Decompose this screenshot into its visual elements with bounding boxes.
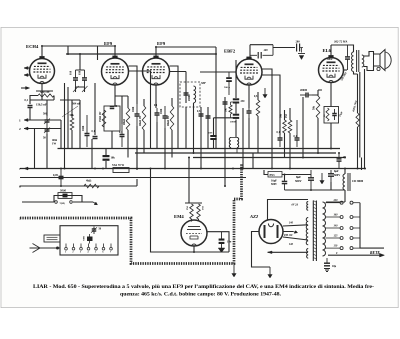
capacitor (45, 116, 50, 126)
wire long vertical right A (357, 74, 359, 169)
resistor (283, 120, 287, 133)
resistor (326, 108, 329, 121)
ground (268, 267, 272, 278)
antenna (30, 244, 61, 253)
capacitor (247, 108, 252, 118)
tube EM4 (181, 220, 207, 247)
wire speaker leads (364, 52, 374, 71)
svg-text:PM 110: PM 110 (284, 234, 293, 237)
wire v303 (302, 97, 304, 158)
volume control 5000 (22, 193, 98, 205)
tube ECH4 (30, 56, 55, 84)
capacitor (206, 116, 211, 118)
svg-text:010: 010 (70, 70, 73, 75)
wire ECH4 left leads (29, 68, 32, 75)
cap 7000 in box (87, 234, 93, 244)
wire v137 bottom (136, 149, 138, 187)
svg-text:4kΩ: 4kΩ (86, 179, 92, 183)
ground (263, 88, 267, 98)
svg-text:20000: 20000 (300, 89, 308, 92)
diode cap 500 (226, 72, 232, 95)
cap 50N (210, 135, 216, 140)
capacitor (345, 45, 350, 70)
svg-text:10µ: 10µ (332, 265, 337, 268)
wire top bus (66, 53, 216, 55)
capacitor (300, 93, 312, 98)
cap 250 (233, 98, 239, 103)
wire v61 (60, 120, 62, 149)
terminal arrows antenna input (24, 67, 30, 77)
svg-text:2M: 2M (186, 206, 189, 210)
svg-text:20k: 20k (225, 108, 228, 113)
terminal arrow left 88 (21, 87, 30, 90)
capacitor (328, 170, 334, 182)
resistor (197, 204, 201, 219)
plug (44, 235, 60, 242)
wire mains join (360, 203, 384, 248)
wire left drop (34, 129, 36, 169)
wire v95 (94, 83, 96, 135)
svg-text:5000: 5000 (60, 188, 67, 192)
wire EBF2 top cap (250, 45, 273, 57)
wire choke net (326, 169, 345, 203)
svg-text:504 nF: 504 nF (72, 102, 81, 106)
coil in MF (194, 86, 196, 103)
capacitor (92, 227, 97, 235)
svg-text:7(M): 7(M) (60, 202, 65, 205)
wire EM4 feed (188, 158, 190, 204)
output transformer (352, 50, 364, 72)
capacitor (295, 120, 300, 147)
choke CD8000 (343, 173, 350, 191)
IF2 coils (229, 138, 238, 154)
cap 400 stub (250, 45, 295, 56)
wire loop bottom to bus (111, 131, 113, 149)
wire ECH4 grid cap (41, 46, 43, 56)
wire left net (30, 96, 38, 105)
wire v253 (252, 153, 254, 169)
ground (232, 264, 236, 278)
svg-text:7000: 7000 (83, 235, 86, 241)
wire v80 down (60, 100, 80, 149)
resistor (229, 105, 232, 114)
cap 10n EM4 (218, 232, 225, 253)
label 504 nF pointer (62, 106, 78, 117)
svg-text:340: 340 (288, 243, 294, 246)
wire v280 (279, 100, 281, 135)
capacitor (282, 177, 288, 190)
EL6 cathode box (330, 83, 332, 107)
resistor (38, 94, 54, 97)
svg-text:EBF2: EBF2 (224, 49, 236, 54)
box 16uF cap (268, 172, 282, 178)
resistor (170, 106, 174, 130)
terminal 1 (24, 119, 61, 122)
svg-text:10n: 10n (227, 241, 232, 244)
ground (320, 173, 324, 184)
capacitor (82, 70, 87, 87)
svg-text:VAS 70 W: VAS 70 W (112, 164, 124, 167)
wire v178 screen (177, 104, 179, 149)
resistor (70, 118, 74, 130)
wire AZ2 left return (252, 232, 271, 268)
resistor (126, 108, 130, 130)
svg-text:2: 2 (19, 127, 21, 131)
wire v150 screen (150, 104, 152, 149)
svg-text:400: 400 (263, 49, 269, 52)
svg-text:1000: 1000 (327, 57, 333, 61)
transformer core (313, 201, 316, 262)
label RETE (370, 251, 380, 255)
wire MF to EBF2 (200, 71, 236, 73)
wire trimmer net (46, 100, 48, 169)
coil box pins (65, 244, 113, 251)
svg-text:150,5 nF: 150,5 nF (36, 103, 47, 107)
svg-text:20000: 20000 (188, 94, 191, 101)
wire bus D (193, 157, 345, 159)
capacitor (120, 124, 125, 147)
tube EF9 (143, 56, 170, 86)
speaker (374, 50, 392, 71)
capacitor (163, 106, 168, 128)
capacitor (337, 153, 342, 169)
wire EF9a bottom (114, 85, 116, 106)
capacitor (324, 258, 330, 266)
EM4 enclosure (151, 169, 230, 253)
tube EF9 (102, 56, 129, 86)
svg-text:1000: 1000 (82, 125, 85, 131)
wire resistors to tube (192, 219, 199, 222)
capacitor (135, 104, 140, 126)
wire EM4 right (207, 232, 229, 252)
svg-text:500V: 500V (334, 174, 340, 177)
svg-text:EF9: EF9 (104, 41, 113, 46)
ground (324, 269, 330, 272)
terminal 2 (24, 127, 61, 130)
resistor (316, 96, 320, 118)
wire bus G (20, 185, 137, 187)
wire EL6 anode (344, 69, 348, 71)
wire MF down (186, 72, 194, 154)
wire 54,95 down (30, 91, 54, 100)
capacitor (308, 170, 314, 190)
svg-text:500 µ: 500 µ (224, 86, 230, 89)
svg-text:MF: MF (200, 81, 207, 85)
resistor (288, 120, 292, 133)
svg-text:PN3: PN3 (270, 174, 276, 177)
capacitor (85, 115, 90, 147)
svg-text:10k: 10k (111, 157, 116, 160)
capacitor (59, 169, 64, 187)
wire EM4 bottom (193, 247, 195, 253)
capacitor (93, 137, 98, 139)
svg-text:6µF: 6µF (334, 170, 339, 173)
wire v216 (215, 54, 217, 149)
capacitor (199, 114, 204, 116)
wire EL6 cath to bus (330, 123, 332, 149)
svg-text:6: 6 (19, 185, 21, 189)
resistor (256, 100, 260, 116)
capacitor (45, 126, 50, 134)
IF transformer MF box (180, 82, 200, 107)
label 40Ω 1W (52, 139, 58, 146)
wire long vertical right C (358, 69, 365, 169)
svg-text:340: 340 (288, 222, 294, 225)
wire bus B (58, 148, 341, 150)
svg-text:50k: 50k (280, 113, 283, 118)
wire top caps net (76, 54, 85, 92)
wire v72 (71, 100, 73, 149)
label MF (200, 81, 207, 85)
wire bus F (20, 177, 246, 179)
svg-text:1W: 1W (52, 143, 56, 146)
wire v272 (271, 88, 273, 169)
capacitor (73, 70, 78, 87)
capacitor (278, 135, 283, 147)
wire output primary (331, 45, 358, 74)
svg-text:1000: 1000 (132, 106, 135, 112)
svg-text:50N: 50N (208, 132, 213, 135)
cap 50000 (233, 114, 239, 119)
svg-text:7: 7 (19, 167, 21, 171)
svg-text:50k: 50k (313, 105, 316, 110)
capacitor (28, 106, 33, 108)
tube AZ2 (259, 220, 283, 244)
svg-text:0,1: 0,1 (25, 99, 29, 102)
capacitor (332, 109, 337, 120)
svg-text:362-72 MA: 362-72 MA (333, 40, 347, 44)
EM4 grid resistors (185, 202, 202, 204)
svg-text:EF9: EF9 (157, 41, 166, 46)
resistor (142, 106, 146, 130)
wire right edge down (361, 158, 363, 171)
capacitor (155, 108, 160, 122)
wire grid loop ECH4 top (97, 46, 99, 60)
terminal 7 (24, 167, 62, 170)
wire over EF9b (156, 47, 216, 58)
capacitor (223, 97, 228, 109)
svg-text:40kΩ 1W: 40kΩ 1W (167, 115, 170, 126)
svg-text:EL6: EL6 (323, 48, 332, 53)
svg-text:0,05: 0,05 (53, 174, 58, 177)
wire v208 (207, 107, 209, 149)
cathode loop box EF9a (104, 106, 120, 131)
wire AZ2 anode top (268, 200, 309, 221)
svg-text:200: 200 (296, 41, 301, 44)
svg-text:1: 1 (65, 252, 66, 254)
power transformer primary windings (306, 202, 308, 259)
wire EBF2 anode (262, 69, 280, 100)
svg-text:150Ω 1W: 150Ω 1W (99, 111, 102, 122)
svg-text:ECH4: ECH4 (26, 44, 39, 49)
resistor (84, 184, 99, 188)
power transformer tapped secondary (323, 202, 326, 256)
svg-text:LIAR - Mod. 650 - Supereterodi: LIAR - Mod. 650 - Supereterodina a 5 val… (33, 284, 374, 290)
cap 10k vertical (103, 149, 110, 169)
wire EF9a anode right (128, 66, 151, 104)
resistor VRS 70W (113, 168, 129, 173)
filter bottom wire (311, 182, 345, 190)
svg-text:500V: 500V (271, 183, 277, 186)
svg-text:40kΩ 1W: 40kΩ 1W (139, 115, 142, 126)
shield outline (20, 164, 242, 264)
wire under cap (29, 108, 31, 120)
resistor (102, 110, 106, 127)
wire 122-128 top link (115, 96, 128, 110)
wire v243 (242, 108, 244, 169)
wire AZ2 filament taps (283, 225, 308, 240)
tube EBF2 (236, 57, 262, 86)
svg-text:50000: 50000 (230, 121, 237, 124)
capacitor (184, 86, 189, 103)
wire EBF2 cathode (248, 86, 250, 109)
svg-text:6V 2A: 6V 2A (292, 204, 299, 207)
svg-text:1M: 1M (285, 114, 288, 118)
svg-text:1000: 1000 (160, 108, 163, 114)
wire EL6 top cap (330, 45, 332, 55)
cap 200 top right (297, 44, 305, 60)
svg-text:AZ2: AZ2 (249, 214, 259, 219)
wire EF9b bottom (155, 86, 157, 109)
wire top link over ECH4/EF9 (42, 45, 115, 47)
wire EL6 grid net (312, 90, 322, 95)
caption text (33, 284, 374, 298)
wire v201 (200, 107, 202, 169)
svg-text:1: 1 (19, 119, 21, 123)
wire long vertical right B (359, 72, 361, 158)
wire v225 (224, 97, 226, 186)
wire bus E (20, 168, 365, 170)
wire v64 (64, 83, 66, 169)
tuning coil box (60, 226, 118, 255)
svg-text:40kΩ: 40kΩ (123, 119, 126, 125)
svg-text:CD 8000: CD 8000 (352, 179, 364, 183)
wire ECH4 column (36, 84, 53, 92)
wire EF9a grid cap (114, 46, 116, 56)
svg-text:2: 2 (72, 252, 73, 254)
svg-text:RETE: RETE (370, 251, 380, 255)
resistor (190, 204, 194, 219)
svg-text:EM4: EM4 (174, 214, 184, 219)
capacitor (110, 107, 115, 109)
resistor (356, 113, 359, 127)
svg-text:030: 030 (79, 70, 82, 75)
svg-text:220: 220 (333, 199, 339, 202)
svg-text:1M: 1M (202, 206, 205, 210)
tube EL6 (319, 55, 344, 83)
wire EF9b anode links (169, 66, 186, 104)
mains taps (326, 201, 361, 249)
svg-text:quenza: 465 kc/s. C.d.t. bobin: quenza: 465 kc/s. C.d.t. bobine campo: 8… (120, 292, 282, 298)
wire zero line (328, 254, 380, 256)
wire v68 (67, 46, 69, 149)
wire bus C (135, 152, 336, 154)
svg-text:500V: 500V (295, 179, 303, 183)
label 150,5 nF (36, 103, 47, 107)
wire v236 net (214, 60, 237, 149)
wire rectifier output (268, 251, 309, 253)
